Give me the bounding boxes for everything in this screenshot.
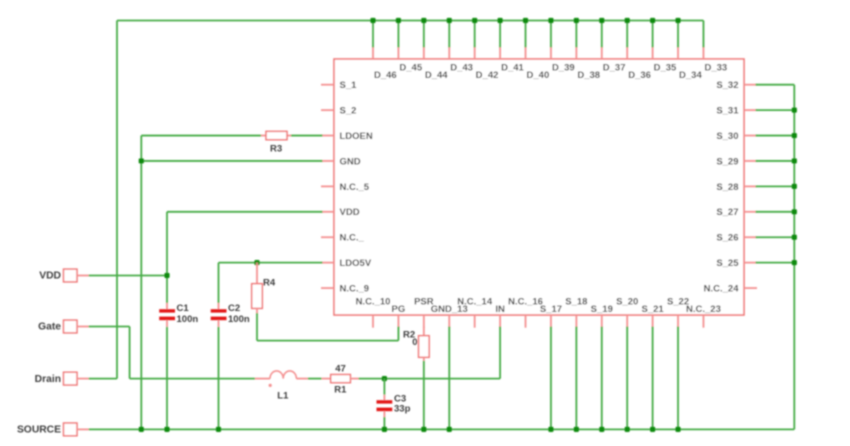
pin GND stub (left) <box>321 156 361 167</box>
wire R3 to ground vertical <box>141 136 261 430</box>
svg-text:N.C._23: N.C._23 <box>686 304 721 315</box>
port VDD <box>39 269 77 282</box>
pin N.C._9 stub (left) <box>321 283 369 294</box>
svg-text:D_39: D_39 <box>552 62 575 73</box>
junction top bus at D_38 <box>574 18 579 23</box>
wire top bus drop to D_39 <box>550 21 552 48</box>
pin D_41 stub (top) <box>500 47 524 74</box>
pin S_20 stub (bottom) <box>616 296 638 327</box>
wire LDOEN to R3 <box>291 135 323 137</box>
wire S_28 to right bus <box>756 185 795 187</box>
pin S_18 stub (bottom) <box>565 296 587 327</box>
svg-text:S_21: S_21 <box>642 304 665 315</box>
svg-text:D_44: D_44 <box>425 70 448 81</box>
svg-text:S_32: S_32 <box>716 80 738 91</box>
junction S_18 at SOURCE bus <box>574 427 579 432</box>
wire drain left vertical <box>116 21 118 379</box>
junction top bus at D_36 <box>625 18 630 23</box>
pin N.C._ stub (left) <box>321 233 365 244</box>
wire top bus drop to D_45 <box>397 21 399 48</box>
junction R2 at SOURCE bus <box>421 427 426 432</box>
junction top bus at D_40 <box>523 18 528 23</box>
junction right bus at S_31 <box>792 108 797 113</box>
svg-text:C1: C1 <box>177 303 190 314</box>
svg-text:GND: GND <box>340 156 361 167</box>
junction C1 at SOURCE bus <box>164 427 169 432</box>
svg-text:S_30: S_30 <box>716 131 738 142</box>
svg-text:S_1: S_1 <box>340 80 358 91</box>
svg-text:L1: L1 <box>277 390 289 401</box>
wire S_29 to right bus <box>756 160 795 162</box>
pin S_1 stub (left) <box>321 80 357 91</box>
junction top bus at D_45 <box>396 18 401 23</box>
junction S_21 at SOURCE bus <box>650 427 655 432</box>
wire top bus drop to D_40 <box>525 21 527 48</box>
wire C2 to SOURCE bus <box>218 327 220 430</box>
pin S_2 stub (left) <box>321 106 356 117</box>
svg-text:D_45: D_45 <box>399 62 422 73</box>
resistor R1 value 47 <box>322 364 359 396</box>
svg-text:S_19: S_19 <box>591 304 613 315</box>
pin S_22 stub (bottom) <box>667 296 689 327</box>
wire SOURCE port stub <box>77 428 89 430</box>
svg-text:S_25: S_25 <box>716 258 739 269</box>
junction top bus at D_41 <box>498 18 503 23</box>
svg-text:D_43: D_43 <box>450 62 473 73</box>
pin S_19 stub (bottom) <box>591 304 613 328</box>
pin VDD stub (left) <box>321 207 360 218</box>
svg-text:N.C._14: N.C._14 <box>457 296 493 307</box>
pin D_35 stub (top) <box>653 47 677 74</box>
wire S_20 to SOURCE bus <box>626 327 628 430</box>
svg-text:N.C._9: N.C._9 <box>340 283 370 294</box>
pin PG stub (bottom) <box>392 304 406 328</box>
svg-text:S_26: S_26 <box>716 233 738 244</box>
wire VDD port stub <box>77 275 89 277</box>
pin N.C._23 stub (bottom) <box>686 304 721 328</box>
capacitor C3 <box>377 379 411 417</box>
port Drain <box>35 372 77 385</box>
svg-text:N.C._: N.C._ <box>340 233 365 244</box>
wire top bus drop to D_42 <box>474 21 476 48</box>
svg-text:D_36: D_36 <box>628 70 651 81</box>
svg-text:D_46: D_46 <box>374 70 397 81</box>
wire top bus drop to D_35 <box>652 21 654 48</box>
wire C1 to SOURCE bus <box>166 327 168 430</box>
pin PSR stub (bottom) <box>414 296 434 327</box>
pin S_30 stub (right) <box>716 131 757 142</box>
pin S_32 stub (right) <box>716 80 757 91</box>
wire R2 to SOURCE bus <box>423 361 425 430</box>
wire Drain port to left vertical <box>89 378 117 380</box>
wire top bus drop to D_46 <box>372 21 374 48</box>
resistor R4 <box>252 263 276 313</box>
wire S_18 to SOURCE bus <box>575 327 577 430</box>
wire top bus drop to D_43 <box>448 21 450 48</box>
svg-text:SOURCE: SOURCE <box>17 425 61 436</box>
wire top bus drop to D_36 <box>626 21 628 48</box>
wire top drain bus horizontal <box>117 20 703 22</box>
capacitor C2 <box>211 303 250 327</box>
wire S_19 to SOURCE bus <box>601 327 603 430</box>
svg-text:D_40: D_40 <box>527 70 550 81</box>
svg-text:LDO5V: LDO5V <box>340 258 372 269</box>
junction S_20 at SOURCE bus <box>625 427 630 432</box>
svg-text:R1: R1 <box>334 385 347 396</box>
wire top bus drop to D_33 <box>702 21 704 48</box>
junction S_17 at SOURCE bus <box>548 427 553 432</box>
junction VDD port tee <box>164 273 169 278</box>
wire R4 bottom to PG pin <box>257 313 398 341</box>
junction right bus at S_29 <box>792 158 797 163</box>
capacitor C1 <box>159 303 198 327</box>
wire S_22 to SOURCE bus <box>677 327 679 430</box>
svg-text:S_27: S_27 <box>716 207 738 218</box>
junction GND_13 at SOURCE bus <box>447 427 452 432</box>
svg-text:PG: PG <box>392 304 406 315</box>
pin GND_13 stub (bottom) <box>431 304 468 328</box>
svg-text:47: 47 <box>335 364 346 375</box>
junction C3 at SOURCE bus <box>382 427 387 432</box>
pin N.C._10 stub (bottom) <box>356 296 391 327</box>
wire top bus drop to D_37 <box>601 21 603 48</box>
svg-text:S_31: S_31 <box>716 106 739 117</box>
pin D_39 stub (top) <box>551 47 575 74</box>
svg-text:33p: 33p <box>394 404 411 415</box>
svg-text:LDOEN: LDOEN <box>340 131 373 142</box>
junction S_19 at SOURCE bus <box>599 427 604 432</box>
wire S_17 to SOURCE bus <box>550 327 552 430</box>
svg-text:D_42: D_42 <box>476 70 499 81</box>
pin LDOEN stub (left) <box>321 131 373 142</box>
pin S_31 stub (right) <box>716 106 757 117</box>
pin S_27 stub (right) <box>716 207 757 218</box>
svg-text:0: 0 <box>412 337 417 348</box>
svg-text:S_18: S_18 <box>565 296 587 307</box>
junction right bus at S_26 <box>792 235 797 240</box>
junction top bus at D_39 <box>548 18 553 23</box>
wire L1 to R1 <box>308 378 322 380</box>
wire VDD port horizontal <box>89 275 167 277</box>
junction top bus at D_44 <box>421 18 426 23</box>
wire R1 to IN pin <box>359 327 501 379</box>
port Gate <box>38 320 77 333</box>
pin S_26 stub (right) <box>716 233 757 244</box>
wire top bus drop to D_34 <box>677 21 679 48</box>
wire top bus drop to D_44 <box>423 21 425 48</box>
wire S_25 to right bus <box>756 262 795 264</box>
pin N.C._24 stub (right) <box>704 283 757 294</box>
svg-text:N.C._10: N.C._10 <box>356 296 391 307</box>
svg-text:R3: R3 <box>270 144 282 155</box>
pin S_21 stub (bottom) <box>642 304 665 328</box>
svg-text:D_37: D_37 <box>603 62 626 73</box>
svg-text:N.C._5: N.C._5 <box>340 182 370 193</box>
svg-text:D_35: D_35 <box>654 62 677 73</box>
junction R4 tee on LDO5V <box>254 260 259 265</box>
svg-text:R4: R4 <box>263 278 276 289</box>
wire Drain port stub <box>77 378 89 380</box>
svg-text:100n: 100n <box>228 314 250 325</box>
junction C2 at SOURCE bus <box>216 427 221 432</box>
wire S_32 to right bus <box>756 84 795 86</box>
wire Gate port stub <box>77 326 89 328</box>
junction S_22 at SOURCE bus <box>675 427 680 432</box>
junction C3 tee <box>382 376 387 381</box>
svg-text:S_28: S_28 <box>716 182 738 193</box>
pin D_45 stub (top) <box>398 47 422 74</box>
svg-text:S_29: S_29 <box>716 156 738 167</box>
wire bottom SOURCE bus <box>89 428 795 430</box>
junction R3 vertical at SOURCE bus <box>139 427 144 432</box>
pin S_29 stub (right) <box>716 156 757 167</box>
wire gate line segment <box>130 378 255 380</box>
svg-text:VDD: VDD <box>340 207 360 218</box>
pin D_46 stub (top) <box>373 47 397 81</box>
wire LDO5V pin left <box>219 263 323 303</box>
wire GND pin to vertical <box>141 160 322 162</box>
wire C3 to SOURCE bus <box>383 417 385 429</box>
wire top bus drop to D_41 <box>499 21 501 48</box>
pin D_36 stub (top) <box>627 47 651 81</box>
pin D_40 stub (top) <box>526 47 550 81</box>
junction top bus at D_42 <box>472 18 477 23</box>
pin S_25 stub (right) <box>716 258 757 269</box>
svg-text:S_17: S_17 <box>540 304 562 315</box>
pin D_37 stub (top) <box>602 47 626 74</box>
junction top bus at D_43 <box>447 18 452 23</box>
junction GND tee <box>139 158 144 163</box>
wire S_31 to right bus <box>756 109 795 111</box>
op-amp U1 IC body <box>334 59 744 315</box>
svg-text:VDD: VDD <box>39 271 61 282</box>
wire S_30 to right bus <box>756 135 795 137</box>
svg-text:S_20: S_20 <box>616 296 638 307</box>
svg-text:S_2: S_2 <box>340 106 357 117</box>
svg-text:N.C._24: N.C._24 <box>704 283 740 294</box>
wire right source bus vertical <box>793 85 795 430</box>
port SOURCE <box>17 423 77 436</box>
pin N.C._5 stub (left) <box>321 182 370 193</box>
svg-text:Gate: Gate <box>38 322 61 333</box>
pin D_33 stub (top) <box>703 47 727 74</box>
svg-text:D_38: D_38 <box>577 70 600 81</box>
svg-text:Drain: Drain <box>35 374 61 385</box>
wire S_26 to right bus <box>756 236 795 238</box>
junction top bus at D_34 <box>675 18 680 23</box>
svg-text:100n: 100n <box>177 314 199 325</box>
svg-text:IN: IN <box>495 304 505 315</box>
pin D_44 stub (top) <box>424 47 448 81</box>
pin D_34 stub (top) <box>678 47 702 81</box>
svg-text:D_34: D_34 <box>679 70 702 81</box>
junction top bus at D_35 <box>650 18 655 23</box>
pin IN stub (bottom) <box>495 304 505 328</box>
pin D_42 stub (top) <box>475 47 499 81</box>
pin LDO5V stub (left) <box>321 258 372 269</box>
wire Gate route <box>89 327 130 379</box>
resistor R3 <box>261 131 291 154</box>
wire top bus drop to D_38 <box>575 21 577 48</box>
pin S_17 stub (bottom) <box>540 304 562 328</box>
wire VDD pin left <box>167 212 323 303</box>
junction right bus at S_28 <box>792 184 797 189</box>
junction right bus at S_30 <box>792 133 797 138</box>
junction right bus at S_27 <box>792 209 797 214</box>
pin N.C._16 stub (bottom) <box>508 296 543 327</box>
pin D_43 stub (top) <box>449 47 473 74</box>
resistor R2 <box>403 327 429 361</box>
inductor L1 <box>255 371 308 401</box>
svg-text:D_41: D_41 <box>501 62 524 73</box>
svg-text:D_33: D_33 <box>704 62 727 73</box>
wire GND_13 to SOURCE bus <box>448 327 450 430</box>
svg-text:N.C._16: N.C._16 <box>508 296 543 307</box>
pin N.C._14 stub (bottom) <box>457 296 493 327</box>
wire S_27 to right bus <box>756 211 795 213</box>
pin D_38 stub (top) <box>576 47 600 81</box>
svg-text:C2: C2 <box>228 303 240 314</box>
junction top bus at D_37 <box>599 18 604 23</box>
junction top bus at D_46 <box>370 18 375 23</box>
pin S_28 stub (right) <box>716 182 757 193</box>
junction right bus at S_25 <box>792 260 797 265</box>
wire S_21 to SOURCE bus <box>652 327 654 430</box>
